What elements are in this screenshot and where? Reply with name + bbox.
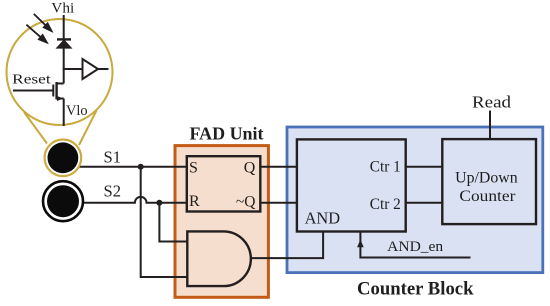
callout line left — [24, 112, 47, 144]
svg-text:Counter Block: Counter Block — [357, 280, 474, 300]
junction dot S1 — [138, 164, 144, 170]
wire S2 branch to AND upper input — [159, 203, 187, 242]
svg-text:Ctr 2: Ctr 2 — [370, 196, 401, 213]
transistor source arrow — [57, 96, 64, 101]
svg-text:S: S — [189, 159, 198, 176]
SR latch U1 — [187, 156, 260, 211]
pixel S1 — [45, 140, 82, 177]
wire photodiode to transistor drain — [63, 47, 65, 84]
wire Q to counter — [260, 166, 297, 168]
wire node to buffer input — [63, 68, 83, 70]
svg-text:R: R — [189, 193, 200, 210]
Counter Block — [287, 127, 543, 273]
wire S2 to latch R (with hop) — [82, 197, 187, 203]
svg-text:Reset: Reset — [12, 73, 51, 88]
wire ~Q to counter — [260, 202, 297, 204]
pixel S2 — [43, 181, 83, 221]
up/down counter box — [442, 139, 536, 224]
buffer amplifier A1 — [83, 59, 99, 79]
wire Reset to gate — [13, 90, 53, 92]
svg-text:FAD Unit: FAD Unit — [190, 123, 264, 143]
AND_en arrowhead — [357, 240, 364, 248]
photon arrow 2 — [26, 25, 46, 43]
svg-text:~Q: ~Q — [236, 193, 256, 210]
junction dot S2 — [156, 200, 162, 206]
svg-text:Read: Read — [472, 93, 512, 112]
inset magnifier circle — [7, 19, 113, 125]
counter input stage box — [297, 139, 406, 231]
svg-text:Vhi: Vhi — [51, 1, 74, 17]
photon arrow 1 — [34, 14, 52, 31]
wire S1 branch to AND lower input — [141, 167, 188, 277]
wire Ctr1 to up/down counter — [406, 166, 443, 168]
svg-text:Ctr 1: Ctr 1 — [370, 158, 401, 175]
svg-text:Vlo: Vlo — [66, 103, 88, 119]
FAD Unit block — [175, 146, 268, 298]
svg-text:Up/Down: Up/Down — [455, 169, 518, 186]
wire Read to counter — [489, 111, 491, 140]
wire Ctr2 to up/down counter — [406, 202, 443, 204]
photodiode D1 — [57, 39, 71, 48]
AND gate G1 — [187, 231, 251, 286]
svg-text:S1: S1 — [104, 147, 122, 166]
svg-text:AND_en: AND_en — [387, 239, 444, 255]
transistor M1 — [53, 82, 63, 100]
svg-text:Counter: Counter — [459, 188, 516, 205]
wire source to Vlo — [63, 99, 65, 127]
svg-text:S2: S2 — [104, 182, 122, 201]
wire S1 to latch S — [77, 166, 187, 168]
wire Vhi to photodiode — [63, 15, 65, 40]
callout line right — [79, 111, 97, 146]
wire AND output to counter — [251, 232, 323, 259]
wire AND_en — [360, 232, 470, 258]
svg-text:Q: Q — [244, 160, 256, 177]
wire buffer output — [98, 68, 109, 70]
svg-text:AND: AND — [305, 209, 341, 228]
